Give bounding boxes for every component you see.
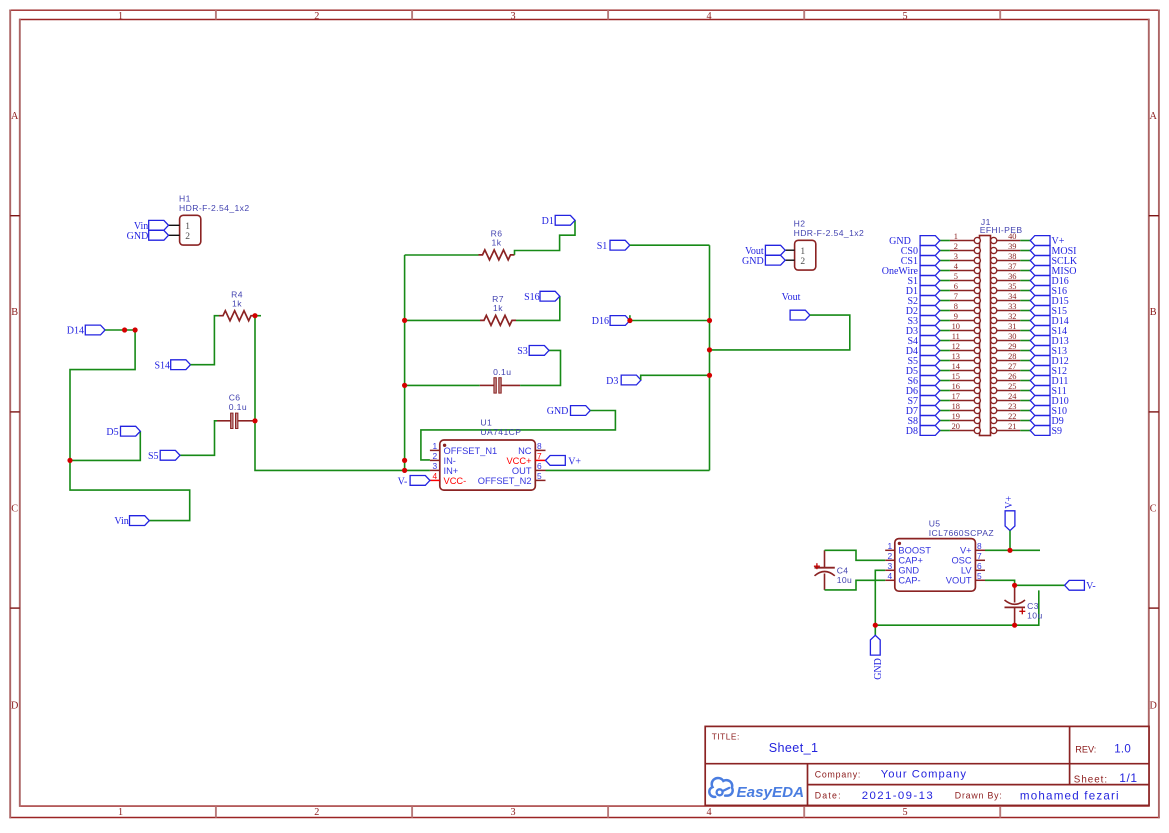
svg-text:16: 16 <box>952 382 960 391</box>
net flag D2 (J1-8) <box>906 306 940 317</box>
net flag GND (H1) <box>127 230 169 241</box>
net flag D4 (J1-12) <box>906 346 940 357</box>
J1 pin 25 (S11) <box>991 382 1021 394</box>
wire J1 right pin 39 <box>1020 250 1030 252</box>
J1 pin 33 (S15) <box>991 302 1021 314</box>
svg-text:OUT: OUT <box>512 466 532 476</box>
wire R7 to S16 <box>516 296 560 320</box>
net flag Vout (H2) <box>745 245 785 256</box>
J1 pin 1 (GND) <box>950 232 981 244</box>
J1 pin 34 (D15) <box>991 292 1021 304</box>
svg-text:28: 28 <box>1008 352 1016 361</box>
svg-text:2: 2 <box>954 242 958 251</box>
net flag S16 (J1-35) <box>1030 286 1067 297</box>
svg-text:3: 3 <box>954 252 958 261</box>
svg-text:Sheet:: Sheet: <box>1074 774 1108 785</box>
svg-text:1.0: 1.0 <box>1114 743 1131 755</box>
svg-text:4: 4 <box>706 807 711 818</box>
capacitor 0.1u (unnamed) <box>480 367 520 393</box>
svg-text:20: 20 <box>952 422 960 431</box>
wire J1 left pin 20 <box>940 430 950 432</box>
net flag S15 (J1-33) <box>1030 306 1067 317</box>
svg-text:8: 8 <box>537 441 542 451</box>
net flag Vout (net) <box>782 292 810 320</box>
svg-text:Your Company: Your Company <box>881 769 967 781</box>
wire mid vertical bus <box>404 255 406 470</box>
wire GND flag stub <box>874 625 876 635</box>
svg-text:VCC+: VCC+ <box>506 456 531 466</box>
junction GND rail left <box>873 623 878 628</box>
svg-text:1: 1 <box>954 232 958 241</box>
J1 pin 14 (D5) <box>950 362 981 374</box>
IC U5 ICL7660SCPAZ <box>895 518 994 591</box>
net flag CS0 (J1-2) <box>901 246 940 257</box>
U5 pin 1 BOOST <box>885 541 931 556</box>
svg-text:33: 33 <box>1008 302 1016 311</box>
net flag D11 (J1-26) <box>1030 376 1068 387</box>
svg-text:V+: V+ <box>960 546 972 556</box>
U5 pin 6 LV <box>961 561 985 576</box>
U1 pin 1 OFFSET_N1 <box>430 441 497 456</box>
wire GND to U1 IN- <box>421 411 616 460</box>
svg-text:9: 9 <box>954 312 958 321</box>
U1 pin 5 OFFSET_N2 <box>478 471 546 486</box>
svg-text:1k: 1k <box>493 303 503 313</box>
svg-text:7: 7 <box>537 451 542 461</box>
net flag GND (U1) <box>547 406 591 418</box>
svg-text:D: D <box>11 701 18 712</box>
U5 pin 3 GND <box>885 561 919 576</box>
net flag D16 <box>592 316 630 328</box>
wire pin8 V+ <box>985 549 1040 551</box>
wire J1 right pin 30 <box>1020 340 1030 342</box>
svg-text:6: 6 <box>977 561 982 571</box>
svg-text:2: 2 <box>314 11 319 22</box>
svg-text:H2: H2 <box>794 219 806 229</box>
J1 pin 5 (S1) <box>950 272 981 284</box>
wire to V- flag <box>1015 584 1065 586</box>
svg-text:2: 2 <box>185 232 190 242</box>
svg-text:C: C <box>1150 503 1157 514</box>
svg-text:S3: S3 <box>517 346 528 357</box>
net flag CS1 (J1-3) <box>901 256 940 267</box>
svg-text:B: B <box>1150 307 1157 318</box>
svg-text:GND: GND <box>127 231 149 242</box>
wire D3 to bus <box>641 375 710 380</box>
J1 pin 10 (D3) <box>950 322 981 334</box>
svg-text:1: 1 <box>800 247 805 257</box>
svg-text:23: 23 <box>1008 402 1016 411</box>
svg-text:27: 27 <box>1008 362 1016 371</box>
svg-text:11: 11 <box>952 332 960 341</box>
wire J1 right pin 37 <box>1020 270 1030 272</box>
net flag V+ (U1) <box>546 456 582 468</box>
svg-text:5: 5 <box>902 807 907 818</box>
svg-text:4: 4 <box>888 571 893 581</box>
wire J1 left pin 12 <box>940 350 950 352</box>
svg-text:5: 5 <box>954 272 958 281</box>
svg-text:REV:: REV: <box>1075 745 1096 755</box>
J1 pin 31 (S14) <box>991 322 1021 334</box>
net flag SCLK (J1-38) <box>1030 256 1078 267</box>
H1 pin 1 <box>169 224 180 226</box>
wire J1 right pin 34 <box>1020 300 1030 302</box>
svg-text:B: B <box>11 307 18 318</box>
wire J1 right pin 36 <box>1020 280 1030 282</box>
svg-text:S14: S14 <box>154 360 170 371</box>
svg-text:V+: V+ <box>568 457 581 468</box>
wire J1 left pin 2 <box>940 250 950 252</box>
net flag GND (H2) <box>742 255 785 266</box>
J1 pin 16 (D6) <box>950 382 981 394</box>
svg-text:Company:: Company: <box>815 769 862 779</box>
J1 pin 4 (OneWire) <box>950 262 981 274</box>
svg-text:1: 1 <box>888 541 893 551</box>
wire C4 bottom to CAP- <box>825 580 886 590</box>
wire J1 right pin 25 <box>1020 390 1030 392</box>
svg-text:D8: D8 <box>906 426 918 437</box>
connector H1 HDR-F-2.54_1x2 <box>169 194 250 246</box>
svg-text:1: 1 <box>118 11 123 22</box>
net flag S14 <box>154 360 190 372</box>
svg-text:36: 36 <box>1008 272 1016 281</box>
svg-text:21: 21 <box>1008 422 1016 431</box>
J1 pin 35 (S16) <box>991 282 1021 294</box>
net flag S7 (J1-17) <box>907 396 939 407</box>
svg-text:2: 2 <box>314 807 319 818</box>
net flag V- (U5) <box>1065 580 1096 592</box>
svg-text:D1: D1 <box>542 216 554 227</box>
U1 pin 2 IN- <box>430 451 456 466</box>
net flag D14 <box>67 325 105 336</box>
J1 pin 32 (D14) <box>991 312 1021 324</box>
wire J1 left pin 1 <box>940 240 950 242</box>
svg-text:7: 7 <box>977 551 982 561</box>
J1 pin 20 (D8) <box>950 422 981 434</box>
svg-text:1: 1 <box>433 441 438 451</box>
J1 pin 17 (S7) <box>950 392 981 404</box>
svg-text:15: 15 <box>952 372 960 381</box>
connector J1 EFHI-PEB <box>980 217 1023 436</box>
net flag V- (U1) <box>398 476 430 488</box>
wire J1 left pin 8 <box>940 310 950 312</box>
svg-text:IN+: IN+ <box>444 466 459 476</box>
wire Vout to bus <box>710 315 850 350</box>
svg-text:26: 26 <box>1008 372 1016 381</box>
U1 pin 8 NC <box>518 441 545 456</box>
net flag OneWire (J1-4) <box>882 266 940 277</box>
svg-text:NC: NC <box>518 446 532 456</box>
wire J1 right pin 24 <box>1020 400 1030 402</box>
svg-text:Sheet_1: Sheet_1 <box>769 741 819 755</box>
svg-text:3: 3 <box>888 561 893 571</box>
wire GND rail <box>875 590 1039 625</box>
svg-text:1: 1 <box>185 222 190 232</box>
net flag S13 (J1-29) <box>1030 346 1067 357</box>
J1 pin 22 (D9) <box>991 412 1021 424</box>
svg-text:U1: U1 <box>480 417 492 427</box>
wire D14 to Vin <box>70 330 190 521</box>
J1 pin 2 (CS0) <box>950 242 981 254</box>
wire C4 top to CAP+ <box>825 550 886 560</box>
wire stub above D16 tip <box>629 315 631 318</box>
svg-text:D: D <box>1150 701 1157 712</box>
net flag GND (U5) <box>870 635 883 680</box>
J1 pin 37 (MISO) <box>991 262 1021 274</box>
svg-text:H1: H1 <box>179 194 191 204</box>
H1 pin 2 <box>169 234 180 236</box>
wire J1 left pin 17 <box>940 400 950 402</box>
net flag S6 (J1-15) <box>907 376 939 387</box>
svg-text:GND: GND <box>742 256 764 267</box>
svg-text:4: 4 <box>433 471 438 481</box>
wire J1 left pin 6 <box>940 290 950 292</box>
junction D5 wire <box>67 458 72 463</box>
wire J1 left pin 5 <box>940 280 950 282</box>
net flag S16 <box>524 291 560 303</box>
svg-text:31: 31 <box>1008 322 1016 331</box>
svg-text:C4: C4 <box>837 565 849 575</box>
wire J1 left pin 13 <box>940 360 950 362</box>
net flag MOSI (J1-39) <box>1030 246 1076 257</box>
wire J1 left pin 15 <box>940 380 950 382</box>
svg-text:22: 22 <box>1008 412 1016 421</box>
wire J1 right pin 40 <box>1020 240 1030 242</box>
wire J1 right pin 23 <box>1020 410 1030 412</box>
wire J1 right pin 33 <box>1020 310 1030 312</box>
svg-text:D14: D14 <box>67 326 84 337</box>
net flag S1 (J1-5) <box>907 276 939 287</box>
svg-text:D5: D5 <box>106 427 118 438</box>
wire J1 left pin 19 <box>940 420 950 422</box>
svg-text:32: 32 <box>1008 312 1016 321</box>
J1 pin 30 (D13) <box>991 332 1021 344</box>
wire J1 left pin 18 <box>940 410 950 412</box>
wire J1 right pin 28 <box>1020 360 1030 362</box>
svg-text:24: 24 <box>1008 392 1017 401</box>
junction R7 left <box>402 318 407 323</box>
svg-text:S5: S5 <box>148 451 159 462</box>
svg-text:S9: S9 <box>1052 426 1063 437</box>
wire J1 right pin 38 <box>1020 260 1030 262</box>
junction bus/Vout <box>707 347 712 352</box>
svg-text:3: 3 <box>510 11 515 22</box>
svg-text:OFFSET_N1: OFFSET_N1 <box>444 446 498 456</box>
svg-text:GND: GND <box>898 566 919 576</box>
J1 pin 21 (S9) <box>991 422 1021 434</box>
net flag S3 (J1-9) <box>907 316 939 327</box>
junction bus/D3 <box>707 373 712 378</box>
svg-text:0.1u: 0.1u <box>493 367 511 377</box>
svg-text:ICL7660SCPAZ: ICL7660SCPAZ <box>929 528 994 538</box>
J1 pin 18 (D7) <box>950 402 981 414</box>
svg-text:1: 1 <box>118 807 123 818</box>
wire J1 right pin 21 <box>1020 430 1030 432</box>
wire J1 right pin 32 <box>1020 320 1030 322</box>
svg-text:Drawn By:: Drawn By: <box>955 790 1003 800</box>
wire J1 left pin 9 <box>940 320 950 322</box>
J1 pin 36 (D16) <box>991 272 1021 284</box>
net flag S5 (J1-13) <box>907 356 939 367</box>
net flag D6 (J1-16) <box>906 386 940 397</box>
svg-text:37: 37 <box>1008 262 1016 271</box>
net flag V+ (J1-40) <box>1030 236 1065 247</box>
net flag S4 (J1-11) <box>907 336 939 347</box>
svg-text:Vout: Vout <box>782 292 801 303</box>
J1 pin 28 (D12) <box>991 352 1021 364</box>
net flag D5 <box>106 426 140 438</box>
wire J1 left pin 3 <box>940 260 950 262</box>
net flag D13 (J1-30) <box>1030 336 1069 347</box>
net flag S11 (J1-25) <box>1030 386 1067 397</box>
svg-text:12: 12 <box>952 342 960 351</box>
net flag GND (J1-1) <box>889 236 940 247</box>
U5 pin 5 VOUT <box>946 571 985 586</box>
svg-text:25: 25 <box>1008 382 1016 391</box>
svg-text:VOUT: VOUT <box>946 576 972 586</box>
wire J1 right pin 29 <box>1020 350 1030 352</box>
net flag D10 (J1-24) <box>1030 396 1069 407</box>
wire D14 to junction <box>105 329 135 331</box>
svg-text:Vin: Vin <box>114 516 128 527</box>
net flag D15 (J1-34) <box>1030 296 1069 307</box>
resistor R4 <box>219 290 255 321</box>
svg-text:34: 34 <box>1008 292 1017 301</box>
junction bus/D16 <box>707 318 712 323</box>
svg-text:EasyEDA: EasyEDA <box>737 784 805 801</box>
wire U1 OUT right <box>546 469 710 471</box>
J1 pin 19 (S8) <box>950 412 981 424</box>
H2 pin 2 <box>785 259 794 261</box>
svg-text:GND: GND <box>873 658 884 680</box>
J1 pin 8 (D2) <box>950 302 981 314</box>
wire R4 to U1 IN+ <box>255 316 430 471</box>
J1 pin 26 (D11) <box>991 372 1021 384</box>
junction on D14 wire <box>122 327 127 332</box>
J1 pin 15 (S6) <box>950 372 981 384</box>
net flag MISO (J1-37) <box>1030 266 1076 277</box>
wire mid bus to R7 <box>405 319 480 321</box>
svg-text:OFFSET_N2: OFFSET_N2 <box>478 476 532 486</box>
svg-text:VCC-: VCC- <box>444 476 467 486</box>
capacitor C3 10u (polarized) <box>1005 585 1043 625</box>
net flag S8 (J1-19) <box>907 416 939 427</box>
wire S14 to R4 <box>191 316 220 365</box>
J1 pin 7 (S2) <box>950 292 981 304</box>
capacitor C4 10u (polarized) <box>814 550 852 590</box>
svg-text:V-: V- <box>1086 581 1096 592</box>
J1 pin 13 (S5) <box>950 352 981 364</box>
wire J1 left pin 4 <box>940 270 950 272</box>
wire S5 to C6 <box>180 421 217 456</box>
J1 pin 11 (S4) <box>950 332 981 344</box>
svg-text:10u: 10u <box>1027 610 1043 620</box>
net flag Vin <box>114 516 149 528</box>
wire J1 right pin 26 <box>1020 380 1030 382</box>
junction VOUT/C3/V- <box>1012 583 1017 588</box>
svg-text:BOOST: BOOST <box>898 546 931 556</box>
wire D5 to junction <box>70 431 140 460</box>
svg-text:TITLE:: TITLE: <box>712 731 740 741</box>
wire J1 left pin 7 <box>940 300 950 302</box>
J1 pin 12 (D4) <box>950 342 981 354</box>
wire U5 GND down <box>875 570 885 625</box>
svg-text:7: 7 <box>954 292 958 301</box>
svg-text:UA741CP: UA741CP <box>480 427 521 437</box>
svg-text:LV: LV <box>961 566 972 576</box>
net flag D5 (J1-14) <box>906 366 940 377</box>
U5 pin 4 CAP- <box>885 571 920 586</box>
J1 pin 27 (S12) <box>991 362 1021 374</box>
resistor R7 <box>480 294 516 325</box>
svg-text:5: 5 <box>537 471 542 481</box>
J1 pin 6 (D1) <box>950 282 981 294</box>
svg-text:C: C <box>11 503 18 514</box>
net flag Vin (H1) <box>134 220 169 231</box>
svg-text:0.1u: 0.1u <box>229 402 247 412</box>
U1 pin 6 OUT <box>512 461 546 476</box>
svg-text:3: 3 <box>510 807 515 818</box>
net flag D8 (J1-20) <box>906 426 940 437</box>
J1 pin 23 (S10) <box>991 402 1021 414</box>
svg-text:S1: S1 <box>597 241 608 252</box>
junction 0.1u left <box>402 383 407 388</box>
svg-text:4: 4 <box>706 11 711 22</box>
svg-text:U5: U5 <box>929 518 941 528</box>
J1 pin 24 (D10) <box>991 392 1021 404</box>
J1 pin 38 (SCLK) <box>991 252 1021 264</box>
svg-text:IN-: IN- <box>444 456 456 466</box>
net flag D12 (J1-28) <box>1030 356 1069 367</box>
wire J1 left pin 11 <box>940 340 950 342</box>
U5 pin 7 OSC <box>951 551 985 566</box>
U1 pin 7 VCC+ <box>506 451 545 466</box>
net flag S3 <box>517 346 549 358</box>
svg-text:S16: S16 <box>524 292 540 303</box>
svg-text:Date:: Date: <box>815 790 842 800</box>
wire R6 to D1 <box>515 220 576 255</box>
net flag D9 (J1-22) <box>1030 416 1064 427</box>
svg-text:D3: D3 <box>606 376 618 387</box>
svg-text:6: 6 <box>537 461 542 471</box>
J1 pin 9 (S3) <box>950 312 981 324</box>
svg-text:CAP+: CAP+ <box>898 556 923 566</box>
junction at D14 corner <box>133 327 138 332</box>
U5 pin 2 CAP+ <box>885 551 923 566</box>
svg-text:6: 6 <box>954 282 958 291</box>
svg-text:14: 14 <box>952 362 961 371</box>
svg-text:5: 5 <box>902 11 907 22</box>
svg-text:OSC: OSC <box>951 556 971 566</box>
svg-text:V-: V- <box>398 477 408 488</box>
svg-text:2: 2 <box>800 257 805 267</box>
net flag S12 (J1-27) <box>1030 366 1067 377</box>
net flag S9 (J1-21) <box>1030 426 1062 437</box>
net flag S14 (J1-31) <box>1030 326 1067 337</box>
op-amp U1 UA741CP <box>440 417 536 490</box>
svg-text:2: 2 <box>433 451 438 461</box>
svg-text:V+: V+ <box>1004 495 1015 508</box>
net flag S1 <box>597 240 630 252</box>
wire J1 left pin 10 <box>940 330 950 332</box>
resistor R6 <box>479 229 515 260</box>
wire J1 left pin 16 <box>940 390 950 392</box>
svg-text:18: 18 <box>952 402 960 411</box>
net flag D1 (J1-6) <box>906 286 940 297</box>
H2 pin 1 <box>785 249 794 251</box>
svg-text:35: 35 <box>1008 282 1016 291</box>
svg-text:5: 5 <box>977 571 982 581</box>
